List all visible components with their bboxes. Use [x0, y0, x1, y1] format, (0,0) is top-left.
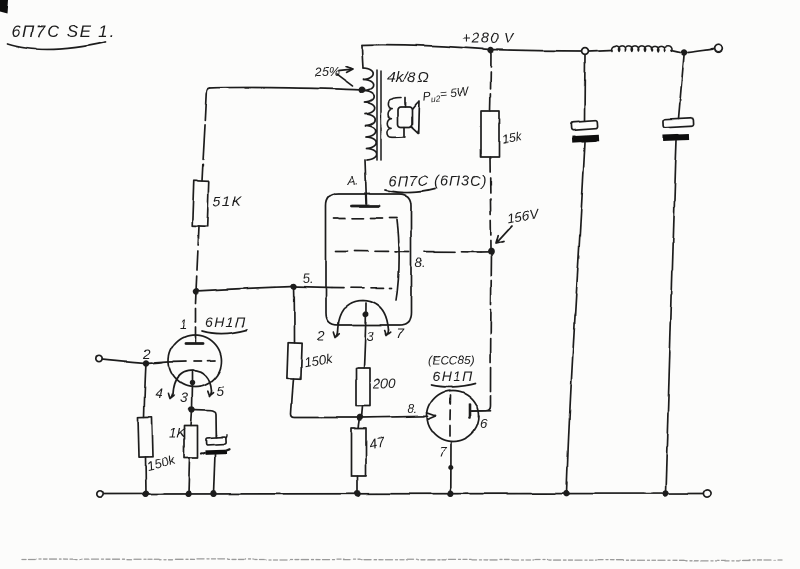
capacitor C2 filter	[663, 56, 694, 494]
svg-text:8.: 8.	[415, 256, 425, 270]
wire: V1 anode lead dashed	[195, 291, 198, 337]
node: 25% tap junction	[359, 87, 364, 92]
wire: grid drive with arrow into V3	[362, 413, 436, 420]
wire: 51k to grid node (dashed)	[196, 226, 199, 291]
wire: cathode junction to bypass cap	[192, 410, 217, 438]
svg-text:150k: 150k	[145, 452, 177, 474]
wire: cathode junction to 1k	[191, 410, 192, 426]
svg-text:4: 4	[155, 386, 163, 401]
V1 grid (dashed)	[168, 361, 215, 363]
wire: 200 to junction	[362, 406, 363, 418]
svg-text:5: 5	[217, 384, 225, 399]
node 5.	[292, 272, 314, 289]
wire: junction to 47	[359, 418, 361, 429]
svg-text:2: 2	[316, 328, 325, 343]
wire: screen solid part to node	[481, 251, 492, 253]
capacitor C cathode bypass	[201, 435, 229, 494]
scan corner mark	[0, 0, 9, 13]
wire: tap to grid-leak corner	[210, 87, 362, 90]
svg-text:3: 3	[180, 390, 188, 405]
V2 anode plate	[352, 205, 379, 208]
V1 cathode arc	[173, 371, 212, 395]
transformer T1 secondary	[387, 98, 405, 138]
svg-text:A.: A.	[346, 174, 358, 188]
capacitor C1 filter	[567, 55, 600, 494]
V3 anode bar	[469, 404, 472, 418]
V2 cathode stem	[364, 303, 375, 368]
wire: node 5 to V2 grid	[294, 287, 332, 288]
wire: 47 to ground	[357, 476, 359, 494]
V1 heater arrow tips pins 4 and 5	[155, 384, 225, 401]
svg-text:(ECC85): (ECC85)	[428, 353, 475, 367]
V3 anode lead	[470, 410, 491, 412]
svg-text:5.: 5.	[303, 272, 313, 286]
node: rail junction circle	[582, 48, 589, 55]
node 2 (input grid)	[142, 347, 151, 366]
wire: transformer primary bottom to anode	[365, 160, 367, 204]
terminal: ground left	[97, 491, 103, 497]
node: V1 anode / 51k junction	[194, 289, 199, 294]
resistor 200	[356, 368, 396, 406]
svg-text:51K: 51K	[213, 193, 242, 209]
wire: node to grid node 5	[196, 287, 294, 292]
svg-text:6Н1П: 6Н1П	[432, 368, 474, 384]
resistor 47	[352, 428, 387, 476]
terminal: B+ output	[715, 45, 723, 53]
wire: rail from filter resistor to output	[589, 49, 714, 53]
triode V1 6Н1П envelope	[169, 335, 222, 387]
svg-text:3: 3	[367, 329, 375, 344]
label 6П7С (6П3С)	[385, 174, 487, 193]
svg-text:1K: 1K	[169, 425, 186, 440]
title 6П7С SE 1.	[8, 22, 116, 49]
label 6Н1П (V1)	[202, 314, 247, 334]
pentode V2 6П7С envelope	[326, 194, 411, 325]
wire: corner down to 51k	[202, 88, 210, 181]
terminal: input	[96, 356, 102, 362]
svg-text:6П7С SE 1.: 6П7С SE 1.	[11, 22, 116, 41]
wire: 156V node down to V3 anode	[472, 252, 492, 412]
node 156V	[489, 249, 494, 254]
wire: 15k to 156V node (dashed)	[490, 157, 491, 249]
svg-text:1: 1	[180, 317, 187, 332]
svg-text:2: 2	[142, 347, 151, 362]
resistor 51k	[192, 181, 242, 226]
svg-text:6: 6	[480, 416, 488, 431]
svg-text:200: 200	[372, 376, 396, 391]
svg-text:15k: 15k	[501, 129, 524, 146]
resistor 1k	[169, 425, 198, 458]
svg-text:6Н1П: 6Н1П	[205, 314, 247, 330]
wire: node5 down to 150k mid	[293, 287, 296, 344]
wire: ground rail	[104, 493, 704, 496]
triode V3 6Н1П (ECC85) envelope	[427, 391, 479, 442]
node: second cap junction	[682, 50, 687, 55]
node: V1 cathode junction	[189, 407, 194, 412]
V2 cathode arc	[338, 301, 389, 333]
transformer T1 primary	[362, 45, 377, 160]
resistor 150k (V2 grid leak)	[287, 343, 335, 379]
svg-text:Pu2= 5W: Pu2= 5W	[422, 84, 471, 105]
svg-text:150k: 150k	[303, 350, 336, 370]
wire: node 2 down to 150k	[144, 364, 146, 418]
wire: input to grid junction	[102, 360, 168, 364]
terminal: ground right	[704, 490, 711, 497]
label 156V with arrow	[496, 206, 541, 243]
node: ground junctions	[144, 491, 668, 496]
resistor 150k (input)	[138, 417, 178, 474]
resistor 15k	[481, 50, 524, 157]
V1 anode plate	[180, 317, 203, 344]
svg-text:25%: 25%	[314, 65, 340, 79]
svg-text:+280V: +280V	[462, 31, 514, 47]
V3 cathode lead pin 7	[439, 442, 452, 494]
V2 heater arrow tips pins 2 and 7	[316, 326, 404, 343]
node: +280V junction	[489, 48, 494, 53]
scan artifact dotted base line	[22, 559, 782, 561]
V2 beam plates (dashed) with side link	[334, 218, 399, 300]
V3 grid (vertical dashed)	[449, 395, 452, 436]
V2 screen grid g2 (dashed to 156V node)	[336, 251, 481, 252]
node: cathode feedback junction	[358, 415, 363, 420]
V1 cathode stem	[180, 372, 194, 409]
svg-text:47: 47	[367, 433, 387, 452]
svg-text:6П7С (6П3С): 6П7С (6П3С)	[388, 174, 487, 190]
svg-text:7: 7	[396, 326, 404, 341]
wire: 1k to ground	[189, 458, 190, 494]
V2 control grid g1 (dashed)	[332, 287, 392, 290]
speaker SP	[398, 98, 419, 138]
wire: top +280V rail	[362, 45, 581, 51]
svg-text:8.: 8.	[407, 402, 417, 416]
transformer core	[377, 70, 381, 160]
label 25% with arrow	[314, 65, 353, 86]
label 6Н1П (V3)	[431, 368, 475, 387]
resistor filter squiggle	[612, 46, 672, 52]
svg-text:156V: 156V	[506, 206, 541, 226]
wire: 150k to ground rail	[145, 457, 148, 494]
wire: 150k mid down and right to cathode bus	[291, 379, 357, 418]
svg-text:7: 7	[439, 444, 447, 459]
svg-text:4k/8Ω: 4k/8Ω	[387, 69, 429, 86]
